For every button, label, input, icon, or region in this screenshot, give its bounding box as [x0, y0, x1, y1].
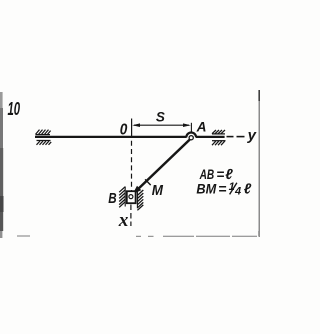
svg-text:y: y [247, 127, 257, 144]
x-axis dashed line from O down to slider [131, 141, 133, 191]
pin joint B inside slider [129, 195, 133, 199]
rail arch bump over pin A [186, 133, 196, 138]
svg-text:ℓ: ℓ [244, 182, 252, 198]
dimension tick at A [190, 123, 192, 132]
svg-text:A: A [196, 120, 207, 135]
dashed y-axis extension right of support [227, 136, 245, 138]
scan cell border bottom dashed line [17, 231, 259, 236]
origin tick / x-axis solid upper part [131, 119, 133, 139]
svg-text:B: B [108, 190, 117, 207]
svg-text:10: 10 [8, 98, 21, 119]
x-axis dashed line below slider [130, 205, 132, 227]
svg-text:M: M [152, 183, 164, 199]
slider block B [127, 191, 136, 203]
left guide wall line at slider [124, 187, 126, 207]
right wall support hatching above rail [212, 130, 225, 134]
right guide wall hatching [137, 190, 143, 210]
dimension S left arrowhead [132, 123, 140, 127]
left wall support hatching below rail [37, 141, 52, 145]
svg-text:S: S [156, 109, 165, 124]
rod arrowhead at B end [132, 186, 141, 195]
scan gutter bar left edge [0, 92, 4, 238]
svg-text:4: 4 [234, 186, 241, 198]
svg-text:0: 0 [120, 121, 128, 138]
left wall support hatching above rail [36, 130, 51, 135]
dimension S line [134, 124, 189, 126]
pin joint A [189, 136, 193, 140]
rod AB [135, 140, 190, 193]
dimension S right arrowhead [183, 123, 191, 127]
svg-text:x: x [118, 210, 129, 231]
tick mark at point M [145, 179, 151, 185]
right guide wall line at slider [136, 190, 138, 208]
horizontal guide rail (right segment past pin A) [196, 136, 225, 138]
right wall support hatching below rail [212, 141, 226, 146]
horizontal guide rail (left segment O side) [35, 136, 187, 138]
fraction slash [230, 183, 237, 195]
left guide wall hatching [119, 187, 125, 208]
svg-text:=: = [218, 180, 226, 196]
svg-text:BM: BM [196, 181, 216, 197]
scan cell border right edge [258, 90, 260, 237]
